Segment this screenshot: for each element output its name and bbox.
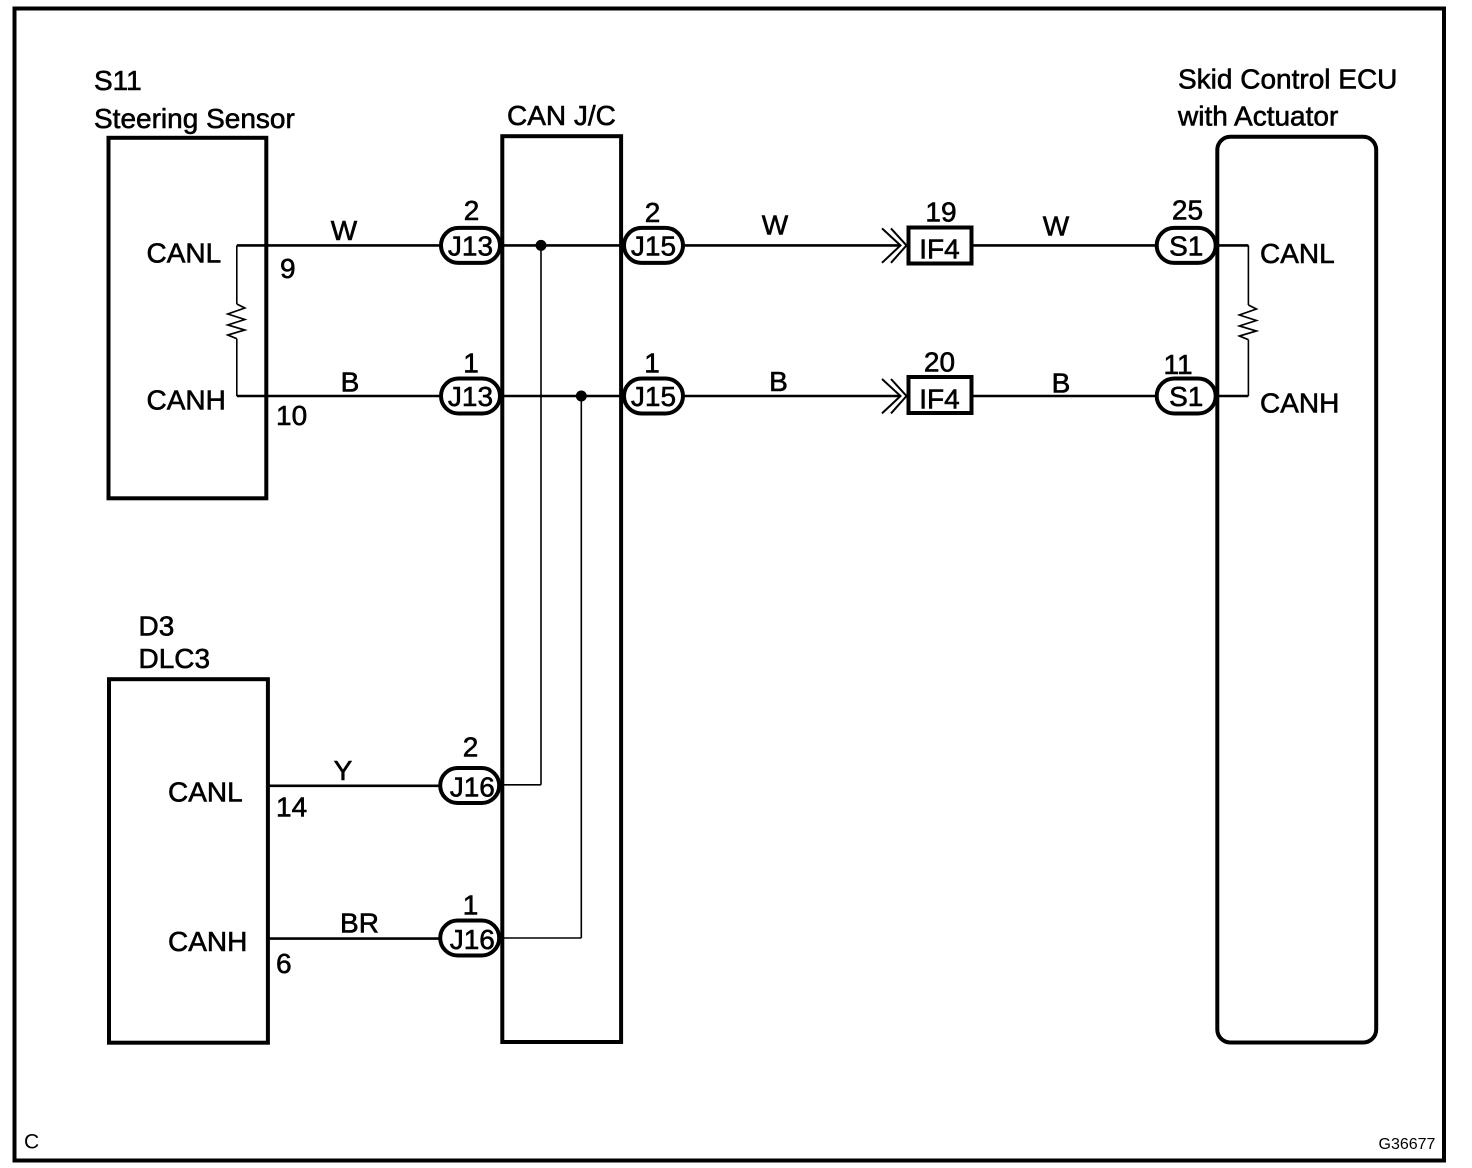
svg-text:CANL: CANL	[168, 777, 243, 808]
connector J13 pin2	[441, 228, 500, 263]
connector S1 pin25	[1157, 228, 1216, 263]
svg-text:IF4: IF4	[919, 234, 959, 265]
node junction CANH branch	[576, 391, 587, 402]
svg-text:CANL: CANL	[147, 238, 222, 269]
connector IF4 lower	[909, 377, 972, 413]
svg-text:1: 1	[644, 348, 660, 379]
svg-text:CANH: CANH	[147, 385, 226, 416]
wire DLC3 CANH to J16 pin1	[268, 937, 470, 940]
box Steering Sensor S11	[109, 138, 267, 499]
svg-text:D3: D3	[139, 611, 175, 642]
wire J16 pin2 stub to node	[470, 784, 541, 786]
svg-text:2: 2	[463, 732, 479, 763]
svg-text:G36677: G36677	[1379, 1136, 1436, 1153]
svg-text:2: 2	[645, 197, 661, 228]
svg-text:CANH: CANH	[168, 926, 247, 957]
chevron in-line connector lower	[882, 379, 901, 413]
chevron in-line connector upper	[882, 228, 901, 262]
svg-text:1: 1	[463, 348, 479, 379]
connector J15 pin2	[624, 228, 683, 263]
svg-text:B: B	[341, 367, 360, 398]
box DLC3 D3	[109, 679, 268, 1042]
svg-text:CANL: CANL	[1260, 238, 1335, 269]
resistor terminating (Steering Sensor)	[236, 245, 238, 304]
svg-text:J15: J15	[631, 230, 676, 261]
svg-text:S11: S11	[94, 65, 142, 96]
box Skid Control ECU with Actuator	[1217, 137, 1376, 1043]
wire J16 pin1 stub to node	[470, 937, 581, 939]
connector J13 pin1	[441, 379, 500, 414]
svg-text:Y: Y	[334, 755, 353, 786]
wire CANL main (Steering Sensor to Skid Control ECU)	[237, 244, 901, 247]
svg-text:W: W	[1043, 211, 1070, 242]
svg-text:W: W	[331, 215, 358, 246]
svg-text:CANH: CANH	[1260, 388, 1339, 419]
svg-text:1: 1	[463, 890, 479, 921]
svg-text:11: 11	[1163, 349, 1192, 380]
svg-text:20: 20	[924, 347, 955, 378]
svg-text:J13: J13	[448, 381, 493, 412]
svg-text:J16: J16	[450, 771, 495, 802]
connector J16 pin2	[440, 768, 499, 803]
svg-text:Skid Control ECU: Skid Control ECU	[1178, 64, 1397, 95]
svg-text:J13: J13	[448, 230, 493, 261]
wire vertical CANH branch inside CAN J/C	[580, 396, 582, 938]
svg-text:C: C	[24, 1131, 39, 1154]
box CAN J/C	[502, 136, 621, 1042]
svg-text:9: 9	[280, 253, 296, 284]
connector J15 pin1	[624, 379, 683, 414]
wire CANH main (Steering Sensor to Skid Control ECU)	[237, 395, 901, 398]
connector J16 pin1	[440, 921, 499, 956]
connector IF4 upper	[909, 228, 972, 264]
svg-text:S1: S1	[1169, 381, 1203, 412]
wire DLC3 CANL to J16 pin2	[268, 784, 470, 787]
svg-text:CAN J/C: CAN J/C	[507, 100, 616, 131]
connector S1 pin11	[1157, 379, 1216, 414]
svg-text:6: 6	[276, 948, 292, 979]
svg-text:J15: J15	[631, 381, 676, 412]
svg-text:10: 10	[276, 400, 307, 431]
svg-text:with Actuator: with Actuator	[1177, 101, 1338, 132]
svg-text:DLC3: DLC3	[139, 643, 211, 674]
svg-text:S1: S1	[1169, 230, 1203, 261]
svg-text:BR: BR	[340, 908, 379, 939]
svg-text:14: 14	[276, 792, 307, 823]
svg-text:B: B	[769, 366, 788, 397]
svg-text:B: B	[1052, 368, 1071, 399]
wire vertical CANL branch inside CAN J/C	[540, 245, 542, 784]
svg-text:J16: J16	[450, 924, 495, 955]
resistor terminating (Skid Control ECU)	[1247, 245, 1249, 305]
node junction CANL branch	[536, 240, 547, 251]
svg-text:25: 25	[1172, 195, 1203, 226]
svg-text:W: W	[762, 210, 789, 241]
svg-text:IF4: IF4	[919, 384, 959, 415]
svg-text:2: 2	[464, 195, 480, 226]
svg-text:Steering Sensor: Steering Sensor	[94, 103, 295, 134]
svg-text:19: 19	[925, 197, 956, 228]
